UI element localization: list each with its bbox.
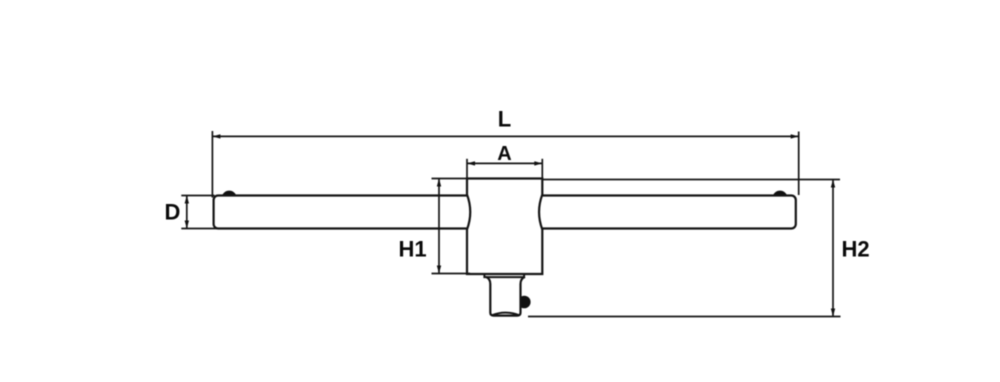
svg-text:D: D: [164, 200, 180, 225]
svg-text:H1: H1: [398, 237, 426, 262]
svg-text:A: A: [497, 143, 511, 165]
svg-text:L: L: [498, 106, 511, 131]
svg-text:H2: H2: [841, 236, 869, 261]
